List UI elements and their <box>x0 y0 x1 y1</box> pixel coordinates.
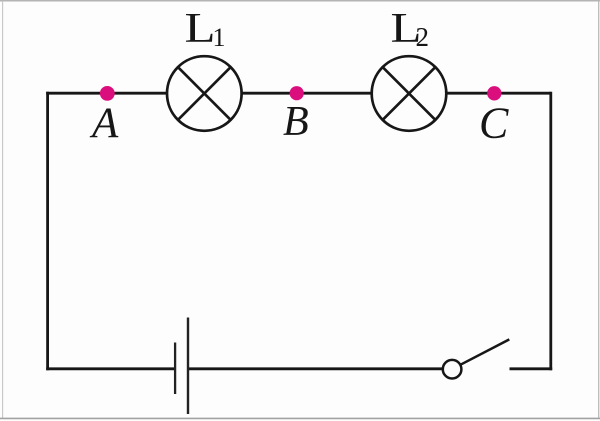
switch pivot circle <box>443 360 462 379</box>
svg-text:2: 2 <box>416 22 430 52</box>
label L1 <box>185 6 226 52</box>
svg-text:1: 1 <box>213 23 226 52</box>
wire left vertical <box>46 92 49 370</box>
switch arm <box>460 339 509 364</box>
battery: short plate (negative) <box>174 343 176 395</box>
wire between L1 and L2 <box>242 92 372 95</box>
label L2 <box>391 6 430 52</box>
wire bottom-right stub <box>510 367 553 370</box>
wire top-left segment <box>46 92 167 95</box>
node B <box>290 86 304 100</box>
node C <box>487 86 501 100</box>
lamp L1 <box>167 56 242 131</box>
wire bottom middle (battery to switch) <box>188 367 443 370</box>
svg-text:B: B <box>283 99 309 145</box>
svg-text:L: L <box>185 6 216 52</box>
svg-text:C: C <box>479 99 509 148</box>
lamp L2 <box>372 56 447 131</box>
battery: long plate (positive) <box>187 318 189 415</box>
svg-text:A: A <box>89 100 119 147</box>
wire bottom-left segment <box>46 367 175 370</box>
node A <box>100 86 115 101</box>
wire right vertical <box>549 92 552 370</box>
wire top-right segment <box>447 92 551 95</box>
